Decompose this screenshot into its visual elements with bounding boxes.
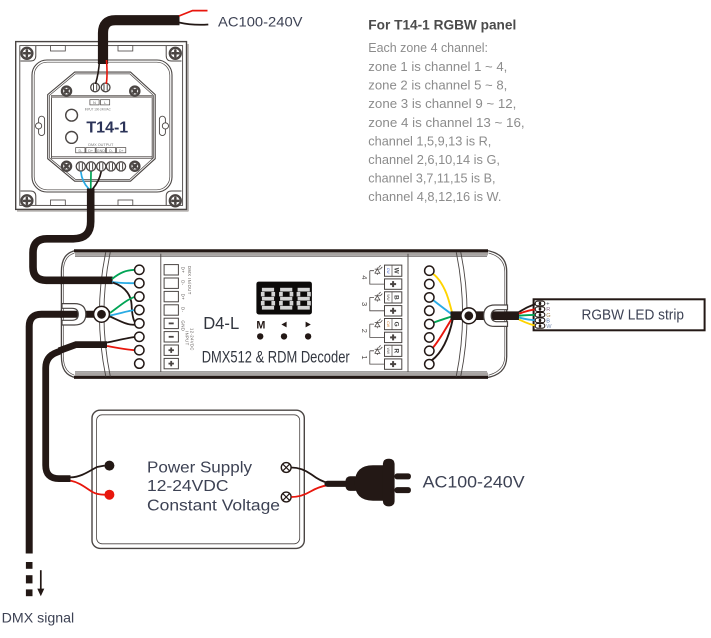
wire black to N [96, 60, 100, 84]
wire yellow to strip W [519, 320, 537, 326]
svg-text:D+: D+ [181, 267, 186, 274]
DMX cable dash 2 [26, 575, 33, 583]
svg-text:INPUT 100-240VAC: INPUT 100-240VAC [85, 107, 111, 111]
plug cord [328, 481, 353, 487]
power cable decoder to PSU [46, 345, 107, 479]
panel T14-1 outer frame [16, 42, 189, 211]
wire black power to decoder minus [107, 337, 135, 343]
svg-text:T14-1: T14-1 [86, 119, 128, 136]
svg-text:1: 1 [360, 355, 369, 359]
svg-text:4: 4 [360, 275, 369, 279]
PSU AC terminal 2 [281, 492, 291, 502]
DMX signal arrow [37, 570, 44, 596]
svg-text:D-: D- [181, 280, 186, 286]
decoder right channel groups [360, 265, 402, 369]
svg-text:D4-L: D4-L [203, 313, 239, 333]
PSU AC terminal 1 [281, 463, 291, 473]
info text body [368, 40, 524, 204]
decoder left cable clamp ring [94, 306, 110, 322]
DMX pass-through segment inside decoder [60, 311, 110, 318]
decoder output cable [451, 311, 520, 320]
panel corner screw bracket BL [21, 191, 36, 206]
panel button 2 [66, 132, 78, 144]
DMX output terminal label boxes [76, 148, 126, 153]
panel corner screw TL [21, 48, 33, 60]
svg-text:M: M [256, 320, 265, 332]
svg-text:channel 1,5,9,13 is R,: channel 1,5,9,13 is R, [368, 133, 491, 148]
decoder right terminal block line [407, 254, 409, 372]
decoder button labels M left right [256, 320, 310, 332]
svg-text:D-: D- [181, 307, 186, 313]
svg-text:DMX IN/OUT: DMX IN/OUT [187, 266, 192, 295]
wire black PSU to plug [291, 468, 328, 483]
RGBW LED strip [534, 299, 705, 330]
decoder left seam [99, 252, 110, 377]
svg-text:CW: CW [386, 321, 390, 327]
svg-text:channel 3,7,11,15 is B,: channel 3,7,11,15 is B, [368, 171, 495, 186]
decoder left screw terminals [135, 265, 144, 368]
panel corner screw TR [170, 48, 182, 60]
panel corner screw BL [21, 195, 33, 207]
svg-text:12-24VDC: 12-24VDC [190, 328, 195, 351]
decoder left U clamp [62, 304, 86, 325]
wire red to strip R [519, 309, 538, 314]
plug body [346, 459, 395, 507]
panel corner screw bracket TR [166, 46, 181, 61]
decoder left pin labels [181, 266, 195, 351]
panel side slot right [159, 116, 168, 135]
panel side slot left [36, 116, 45, 135]
svg-text:B: B [393, 295, 400, 300]
power cable segment inside decoder [59, 345, 107, 351]
svg-text:zone 2 is channel 5 ~ 8,: zone 2 is channel 5 ~ 8, [368, 78, 507, 93]
plug prong 2 [395, 487, 411, 493]
wire black pass-through to decoder GND [110, 317, 135, 325]
wire black top to decoder GND [113, 283, 136, 323]
svg-text:WW: WW [386, 348, 390, 355]
wire green to decoder D+ [112, 270, 135, 279]
decoder right screw terminals [425, 266, 434, 369]
panel octagon screw TR [128, 84, 142, 98]
terminal label box L [101, 100, 110, 105]
DMX cable dash 1 [26, 562, 33, 569]
svg-text:channel 4,8,12,16 is W.: channel 4,8,12,16 is W. [368, 189, 501, 204]
wire red power into PSU [71, 481, 105, 495]
svg-text:channel 2,6,10,14 is G,: channel 2,6,10,14 is G, [368, 152, 500, 167]
AC input screw terminal L [101, 83, 110, 92]
svg-text:12-24VDC: 12-24VDC [147, 478, 229, 495]
panel module face [52, 96, 153, 159]
svg-text:Constant Voltage: Constant Voltage [147, 498, 280, 515]
panel corner screw BR [170, 195, 182, 207]
DMX cable segment inside decoder (top) [60, 276, 113, 284]
svg-text:G: G [393, 322, 400, 327]
AC mains black tip [179, 23, 208, 25]
svg-text:Each zone 4 channel:: Each zone 4 channel: [368, 40, 488, 55]
wire green pass-through to decoder D+ [110, 297, 135, 313]
decoder left terminal block line [160, 254, 162, 372]
svg-text:DMX signal: DMX signal [2, 610, 75, 626]
wire green to strip G [519, 314, 538, 317]
svg-text:DMX512 & RDM Decoder: DMX512 & RDM Decoder [202, 349, 350, 367]
svg-text:N: N [93, 100, 96, 105]
decoder button dots [257, 333, 311, 339]
AC mains red tip [179, 11, 208, 16]
svg-text:R: R [393, 348, 400, 353]
wire black from DMX terminal [93, 172, 102, 190]
svg-text:2: 2 [360, 329, 369, 333]
svg-text:3: 3 [360, 302, 369, 306]
DMX cable dash 3 [26, 589, 33, 596]
wire blue pass-through to decoder D- [110, 310, 135, 316]
wire red PSU to plug [291, 485, 328, 497]
svg-text:AC100-240V: AC100-240V [423, 473, 526, 492]
wire red power to decoder plus [107, 346, 135, 350]
svg-text:RGBW LED strip: RGBW LED strip [582, 308, 685, 324]
svg-text:D+: D+ [88, 149, 93, 153]
wire black from plus terminal [432, 319, 453, 361]
AC mains cable into panel [103, 20, 180, 64]
panel octagon screw BL [60, 159, 74, 173]
decoder left terminal boxes [164, 265, 178, 369]
decoder right seam [456, 252, 467, 377]
svg-text:Power Supply: Power Supply [147, 459, 252, 476]
svg-text:WW: WW [386, 294, 390, 301]
panel octagon screw TL [60, 84, 74, 98]
panel octagon screw BR [128, 159, 142, 173]
terminal label box N [90, 100, 99, 105]
wire black power into PSU [71, 466, 105, 478]
decoder right U clamp [484, 305, 508, 326]
panel button 1 [66, 109, 78, 121]
PSU terminal dot red [104, 490, 114, 500]
svg-text:D+: D+ [181, 294, 186, 301]
svg-text:GND: GND [97, 149, 105, 153]
DMX cable panel to decoder [33, 189, 113, 281]
PSU terminal dot black [104, 461, 114, 471]
wire red from R terminal [433, 317, 453, 348]
svg-text:zone 3 is channel 9 ~ 12,: zone 3 is channel 9 ~ 12, [368, 96, 516, 111]
wire yellow from W terminal [433, 274, 453, 315]
wire blue from DMX terminal [81, 172, 89, 189]
svg-text:W: W [546, 324, 552, 330]
wire blue from B terminal [433, 300, 453, 315]
svg-text:INPUT: INPUT [185, 331, 190, 346]
svg-text:CW: CW [386, 268, 390, 274]
strip solder pads [535, 301, 552, 330]
wire green from DMX terminal [90, 172, 92, 190]
AC input screw terminal N [91, 83, 100, 92]
panel back box [32, 60, 172, 192]
DMX output screw terminals [76, 162, 125, 171]
svg-text:For T14-1 RGBW panel: For T14-1 RGBW panel [368, 17, 516, 32]
wire red to L [105, 60, 108, 84]
plug prong 1 [395, 473, 411, 479]
panel octagon [48, 72, 156, 181]
decoder display [256, 282, 312, 315]
DMX pass-through cable [29, 314, 110, 553]
decoder right cable clamp ring [461, 308, 477, 324]
svg-text:zone 1 is channel 1 ~ 4,: zone 1 is channel 1 ~ 4, [368, 59, 507, 74]
svg-text:zone 4 is channel 13 ~ 16,: zone 4 is channel 13 ~ 16, [368, 115, 524, 130]
power supply box [92, 410, 304, 548]
panel corner screw bracket TL [21, 46, 36, 61]
wire blue to strip B [519, 318, 538, 321]
svg-text:D+: D+ [119, 149, 124, 153]
decoder D4-L body [61, 250, 506, 377]
wire blue to decoder D- [112, 282, 135, 283]
svg-text:W: W [393, 268, 400, 275]
svg-text:GND: GND [181, 320, 186, 331]
panel corner screw bracket BR [166, 191, 181, 206]
svg-text:DMX OUTPUT: DMX OUTPUT [88, 143, 114, 147]
wire green from G terminal [433, 316, 453, 323]
wire black to strip plus [519, 304, 537, 312]
svg-text:AC100-240V: AC100-240V [218, 14, 303, 30]
